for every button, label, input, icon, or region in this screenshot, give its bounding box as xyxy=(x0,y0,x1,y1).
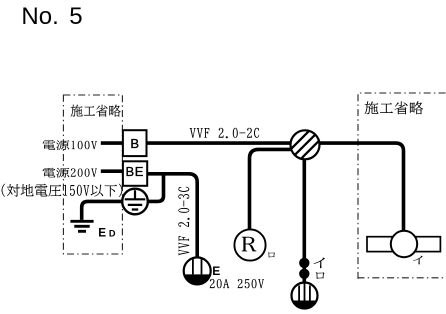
earth-leakage breaker BE xyxy=(123,161,147,186)
svg-text:E: E xyxy=(98,227,106,240)
switch ロ xyxy=(299,269,309,279)
fluorescent luminaire xyxy=(367,231,440,257)
svg-text:BE: BE xyxy=(126,164,145,179)
svg-text:E: E xyxy=(212,264,220,278)
wire: earth terminal to ground electrode ED xyxy=(82,201,123,220)
switch イ xyxy=(299,258,309,268)
svg-text:D: D xyxy=(109,229,116,239)
dashed box: right construction-omitted area xyxy=(358,93,446,279)
label 20A 250V xyxy=(210,279,264,288)
wire: earth terminal joining the VVF 2.0-3C run xyxy=(147,173,164,201)
label ロ (lamp receptacle) xyxy=(268,252,275,257)
label VVF 2.0-2C xyxy=(190,128,259,138)
wire: branch below junction box to lamp receptacle R xyxy=(250,149,292,230)
lamp receptacle R xyxy=(234,229,265,260)
label VVF 2.0-3C (vertical) xyxy=(178,187,189,256)
title No. 5 xyxy=(21,3,82,30)
earth terminal circle with earth mark xyxy=(122,189,148,215)
label ロ (switch) xyxy=(316,272,325,279)
label 施工省略 (right) xyxy=(365,101,424,114)
svg-text:No.: No. xyxy=(21,3,58,30)
ground symbol (earth electrode) xyxy=(70,221,93,231)
svg-text:B: B xyxy=(130,136,139,151)
wire: 100V source lead xyxy=(101,141,124,145)
wire: main 100V line from B to junction box xyxy=(146,141,292,145)
wire: junction box to right then down to fluorescent xyxy=(318,143,404,231)
250V earthed outlet E xyxy=(184,257,211,284)
label 電源100V xyxy=(43,140,98,150)
wire: BE output down to 250V outlet (VVF 2.0-3C run) xyxy=(148,174,197,258)
label イ (switch) xyxy=(314,258,325,269)
label 対地電圧150V以下 xyxy=(2,184,123,197)
svg-text:5: 5 xyxy=(69,3,82,30)
wire: junction box down to switches and ceiling outlet xyxy=(302,158,306,284)
breaker B xyxy=(123,130,147,156)
VVF junction box (hatched circle) xyxy=(291,130,320,159)
dashed box: left construction-omitted area xyxy=(63,95,122,254)
ceiling outlet (wall mounted) xyxy=(292,283,318,309)
wire: 200V source lead xyxy=(101,169,124,173)
label ED xyxy=(98,227,116,240)
label イ (fluorescent) xyxy=(413,256,423,265)
label 電源200V xyxy=(43,168,98,178)
label 施工省略 (left) xyxy=(71,105,121,117)
